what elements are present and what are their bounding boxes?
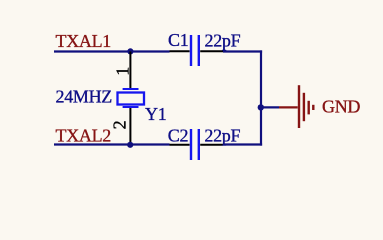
svg-text:C2: C2 xyxy=(168,126,188,146)
junction node on TXAL1 at crystal pin 1 xyxy=(127,48,133,54)
ground symbol bar 2 xyxy=(303,93,305,121)
junction node at GND tap xyxy=(258,104,264,110)
svg-text:Y1: Y1 xyxy=(145,104,166,124)
wire from C2 to right vertical rail xyxy=(223,143,262,145)
capacitor C1 left pin stub xyxy=(170,50,190,52)
junction node on TXAL2 at crystal pin 2 xyxy=(127,142,133,148)
svg-text:22pF: 22pF xyxy=(205,30,241,50)
wire stub from rail to ground symbol xyxy=(261,106,279,108)
crystal Y1 pin 2 wire xyxy=(129,108,131,145)
wire net TXAL2 (bottom horizontal) xyxy=(54,143,170,145)
ground symbol bar 4 xyxy=(312,105,314,110)
svg-text:TXAL1: TXAL1 xyxy=(56,31,112,51)
svg-text:GND: GND xyxy=(322,97,360,117)
capacitor C2 right pin stub xyxy=(200,144,223,146)
svg-text:1: 1 xyxy=(112,67,132,76)
wire net TXAL1 (top horizontal) xyxy=(54,50,170,52)
wire right vertical rail xyxy=(260,50,262,145)
svg-text:24MHZ: 24MHZ xyxy=(56,87,113,107)
capacitor C2 right plate xyxy=(198,129,200,160)
capacitor C2 left plate xyxy=(190,129,192,160)
svg-text:22pF: 22pF xyxy=(204,125,240,145)
crystal Y1 body rectangle xyxy=(118,93,145,105)
wire from C1 to right vertical rail xyxy=(223,50,262,52)
svg-text:C1: C1 xyxy=(168,30,188,50)
crystal Y1 top plate xyxy=(123,88,139,90)
capacitor C1 left plate xyxy=(190,35,192,66)
crystal Y1 bottom plate xyxy=(123,106,139,108)
capacitor C1 right pin stub xyxy=(200,50,223,52)
svg-text:2: 2 xyxy=(110,121,130,130)
ground symbol bar 3 xyxy=(308,101,310,115)
capacitor C1 right plate xyxy=(198,35,200,66)
ground symbol lead xyxy=(279,106,298,108)
svg-text:TXAL2: TXAL2 xyxy=(56,126,112,146)
ground symbol bar 1 xyxy=(298,85,300,128)
crystal Y1 pin 1 wire xyxy=(129,52,131,89)
capacitor C2 left pin stub xyxy=(170,144,190,146)
